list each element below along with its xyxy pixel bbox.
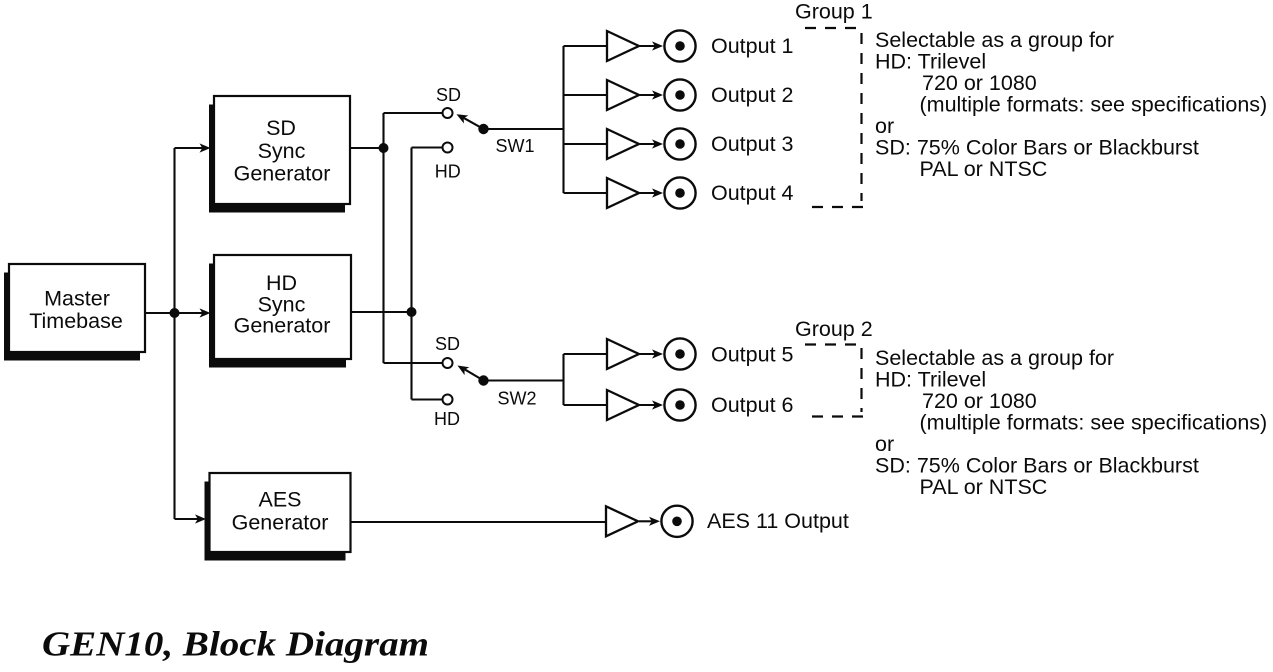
- svg-text:Group 2: Group 2: [795, 317, 873, 341]
- svg-text:(multiple formats: see specifi: (multiple formats: see specifications): [920, 410, 1268, 434]
- svg-text:Output 4: Output 4: [711, 181, 794, 205]
- svg-text:SD: SD: [435, 334, 460, 354]
- svg-text:SD: 75% Color Bars or Blackbur: SD: 75% Color Bars or Blackburst: [875, 135, 1199, 159]
- svg-text:(multiple formats: see specifi: (multiple formats: see specifications): [920, 92, 1268, 116]
- svg-text:Master: Master: [44, 287, 110, 311]
- svg-text:SW1: SW1: [496, 136, 535, 156]
- svg-text:HD: Trilevel: HD: Trilevel: [875, 367, 986, 391]
- svg-text:AES 11 Output: AES 11 Output: [707, 509, 849, 533]
- svg-text:HD: Trilevel: HD: Trilevel: [875, 49, 986, 73]
- svg-text:Output 6: Output 6: [711, 393, 794, 417]
- svg-text:Group 1: Group 1: [795, 0, 873, 24]
- svg-text:Generator: Generator: [232, 511, 329, 535]
- svg-text:HD: HD: [435, 162, 461, 182]
- svg-text:Output 5: Output 5: [711, 343, 794, 367]
- svg-text:GEN10, Block Diagram: GEN10, Block Diagram: [42, 625, 429, 664]
- svg-text:Generator: Generator: [234, 162, 331, 186]
- svg-text:Output 1: Output 1: [711, 34, 793, 58]
- svg-text:720 or 1080: 720 or 1080: [922, 389, 1037, 413]
- svg-text:SD: SD: [266, 116, 296, 140]
- svg-text:Timebase: Timebase: [29, 309, 123, 333]
- svg-text:Output 2: Output 2: [711, 83, 793, 107]
- svg-text:Sync: Sync: [258, 139, 306, 163]
- svg-text:or: or: [875, 432, 894, 456]
- svg-text:HD: HD: [434, 409, 460, 429]
- svg-text:PAL or NTSC: PAL or NTSC: [920, 475, 1048, 499]
- svg-text:Selectable as a group for: Selectable as a group for: [875, 28, 1114, 52]
- svg-text:Selectable as a group for: Selectable as a group for: [875, 346, 1114, 370]
- svg-text:or: or: [875, 114, 894, 138]
- svg-text:SD: 75% Color Bars or Blackbur: SD: 75% Color Bars or Blackburst: [875, 453, 1199, 477]
- svg-text:SD: SD: [436, 85, 461, 105]
- svg-text:SW2: SW2: [498, 389, 537, 409]
- svg-text:HD: HD: [266, 271, 297, 295]
- svg-text:Generator: Generator: [234, 314, 331, 338]
- svg-text:Output 3: Output 3: [711, 132, 794, 156]
- svg-text:PAL or NTSC: PAL or NTSC: [920, 157, 1048, 181]
- svg-text:AES: AES: [258, 488, 301, 512]
- svg-text:720 or 1080: 720 or 1080: [922, 71, 1037, 95]
